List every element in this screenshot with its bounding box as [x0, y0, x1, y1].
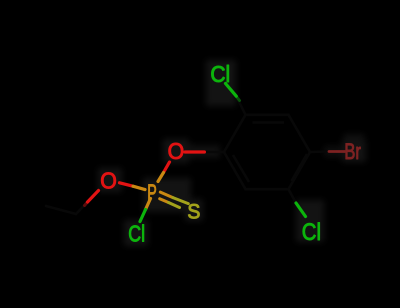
bond Cl(top)-ring green fade tail	[236, 96, 240, 101]
atom label Cl top	[210, 61, 230, 87]
wire ring to Br	[310, 150, 328, 153]
atom label O ethyl	[100, 168, 117, 194]
invisible black bond halves	[46, 96, 328, 214]
bond Br-ring dark red half	[329, 150, 345, 153]
wire ethyl CH2-CH3	[76, 202, 88, 214]
bond O(ethyl)-CH2 red fade tail	[85, 202, 88, 206]
atom label Cl ring bottom	[302, 219, 321, 246]
bond O(aryl)-P lower orange half	[158, 173, 164, 182]
svg-text:Cl: Cl	[302, 219, 321, 246]
svg-text:P: P	[147, 180, 157, 206]
svg-text:Cl: Cl	[128, 221, 145, 247]
atom label P	[147, 180, 157, 206]
svg-text:Cl: Cl	[210, 61, 230, 87]
wire ring to O	[204, 151, 224, 154]
bond O(aryl)-ring red half	[185, 150, 204, 153]
atom label Br	[344, 139, 361, 164]
bond O(ethyl)-P orange half	[133, 186, 145, 189]
atom label O aryl	[168, 138, 185, 164]
svg-text:S: S	[187, 199, 200, 223]
wire ring to bottom Cl	[289, 189, 297, 203]
bond O(aryl)-P upper red half	[164, 162, 170, 173]
jpeg halo blocks	[98, 60, 366, 246]
atom label S	[187, 199, 200, 223]
bond P-Cl green half	[140, 210, 146, 222]
svg-text:O: O	[168, 138, 185, 164]
svg-text:Br: Br	[344, 139, 361, 164]
bond O(ethyl)-P red half	[120, 183, 134, 186]
atom label Cl on P	[128, 221, 145, 247]
bond O(ethyl)-CH2 red half	[88, 191, 99, 203]
bond Cl(top)-ring green half	[226, 84, 237, 97]
wire ring to top Cl	[236, 96, 245, 115]
bond P-Cl orange half	[146, 199, 151, 210]
double bond P=S upper line	[160, 192, 188, 204]
double bond P=S lower line	[160, 199, 180, 208]
svg-text:O: O	[100, 168, 117, 194]
benzene ring (near-invisible dark skeleton)	[224, 115, 310, 189]
bond Cl(bottom)-ring green half	[296, 203, 306, 217]
